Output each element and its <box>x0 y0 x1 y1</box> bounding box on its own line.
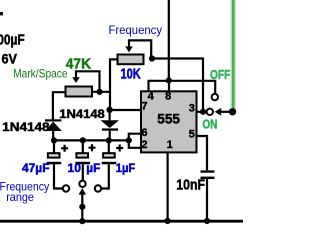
junction: wiper to ground rail <box>79 218 85 224</box>
junction: 10K right terminal / wiper node <box>149 55 155 61</box>
switch SW2 range: middle contact <box>79 181 85 187</box>
svg-text:00µF: 00µF <box>0 32 25 49</box>
svg-text:Mark/Space: Mark/Space <box>13 66 68 80</box>
junction: cap C2 top node <box>80 137 86 143</box>
capacitor C4 10nF <box>201 170 215 172</box>
junction: wiper wire node <box>79 204 85 210</box>
switch SW2 range: left contact <box>63 185 69 191</box>
wire: node to pin 2 <box>129 140 141 147</box>
potentiometer VR1 wiper arrow and loop <box>72 77 80 83</box>
wire: timing node rail (caps top) <box>54 139 129 141</box>
wire: pin 5 to 10nF <box>197 136 208 170</box>
svg-text:47µF: 47µF <box>22 161 50 175</box>
svg-text:2: 2 <box>141 139 147 151</box>
IC U1 555 body <box>141 91 197 152</box>
capacitor C1 47uF (electrolytic) <box>53 140 55 153</box>
switch SW2 wiper arrow to ground <box>79 188 86 195</box>
wire: node to pin 6 <box>129 134 141 141</box>
svg-text:Frequency: Frequency <box>109 23 163 37</box>
svg-text:1N4148: 1N4148 <box>2 120 50 134</box>
diode D2 1N4148 (cathode down) <box>108 110 110 120</box>
svg-text:1µF: 1µF <box>116 161 135 175</box>
wire: green output lead from top <box>230 0 235 112</box>
potentiometer VR1 47K body <box>66 87 93 97</box>
wire: pin 1 to ground <box>167 152 169 221</box>
svg-text:6V: 6V <box>2 51 18 67</box>
wire: pins 4-8 supply rail to OFF contact <box>149 81 216 94</box>
svg-text:10nF: 10nF <box>176 177 205 194</box>
potentiometer VR2 wiper arrow and loop <box>125 46 133 52</box>
svg-text:5: 5 <box>189 129 195 141</box>
junction: cap C1 top node <box>51 137 57 143</box>
junction: 47K right terminal / wiper node <box>96 89 102 95</box>
svg-text:47K: 47K <box>66 55 91 72</box>
capacitor C2 10uF (electrolytic) <box>82 140 84 153</box>
svg-text:1N4148: 1N4148 <box>59 107 105 121</box>
plus sign C2 <box>89 144 96 151</box>
svg-text:10: 10 <box>68 161 82 175</box>
svg-text:OFF: OFF <box>210 67 230 82</box>
potentiometer VR2 10K body <box>118 55 144 65</box>
svg-text:µF: µF <box>86 161 100 175</box>
plus sign of 1000uF (cut off at edge) <box>0 12 3 15</box>
junction: pins 2-6 node <box>126 137 132 143</box>
switch SW1 common arrow (selector) <box>215 108 222 116</box>
diode D1 1N4148 (cathode up) <box>45 119 61 121</box>
junction: pin 1 ground node <box>165 218 171 224</box>
switch SW1 ON contact <box>207 109 213 115</box>
plus sign C3 <box>116 145 123 152</box>
capacitor C3 1uF (electrolytic) <box>108 140 110 153</box>
junction: 10nF ground node <box>204 218 210 224</box>
wire: battery positive supply from top <box>168 0 170 81</box>
svg-text:4: 4 <box>148 91 155 103</box>
junction: pin 7 node <box>106 107 112 113</box>
svg-text:ON: ON <box>202 116 217 131</box>
junction: pin 3 node <box>200 109 206 115</box>
wire: 47K left terminal down to diode D1 <box>53 92 65 119</box>
svg-text:range: range <box>6 190 34 204</box>
switch SW2 range: right contact <box>95 185 101 191</box>
wire: pin 7 to 555 <box>110 109 141 111</box>
svg-text:7: 7 <box>141 101 147 113</box>
svg-text:6: 6 <box>141 127 147 139</box>
plus sign C1 <box>61 145 68 152</box>
switch SW1 OFF contact <box>212 94 218 100</box>
svg-text:1: 1 <box>167 139 173 151</box>
junction: supply rail node <box>166 77 172 83</box>
wire: pin 3 to ON contact <box>197 111 206 113</box>
svg-text:555: 555 <box>157 110 180 126</box>
svg-text:3: 3 <box>189 102 195 114</box>
wire: 10K pot left terminal down to pin 7 node <box>110 59 117 110</box>
svg-text:8: 8 <box>165 91 171 103</box>
wire: pin 3 output to 10K pot junction <box>152 59 203 112</box>
junction: cap C3 top node <box>106 137 112 143</box>
wire: 47K right terminal to pin 7 riser <box>93 91 111 93</box>
ground rail <box>0 220 243 223</box>
svg-text:10K: 10K <box>121 66 141 83</box>
